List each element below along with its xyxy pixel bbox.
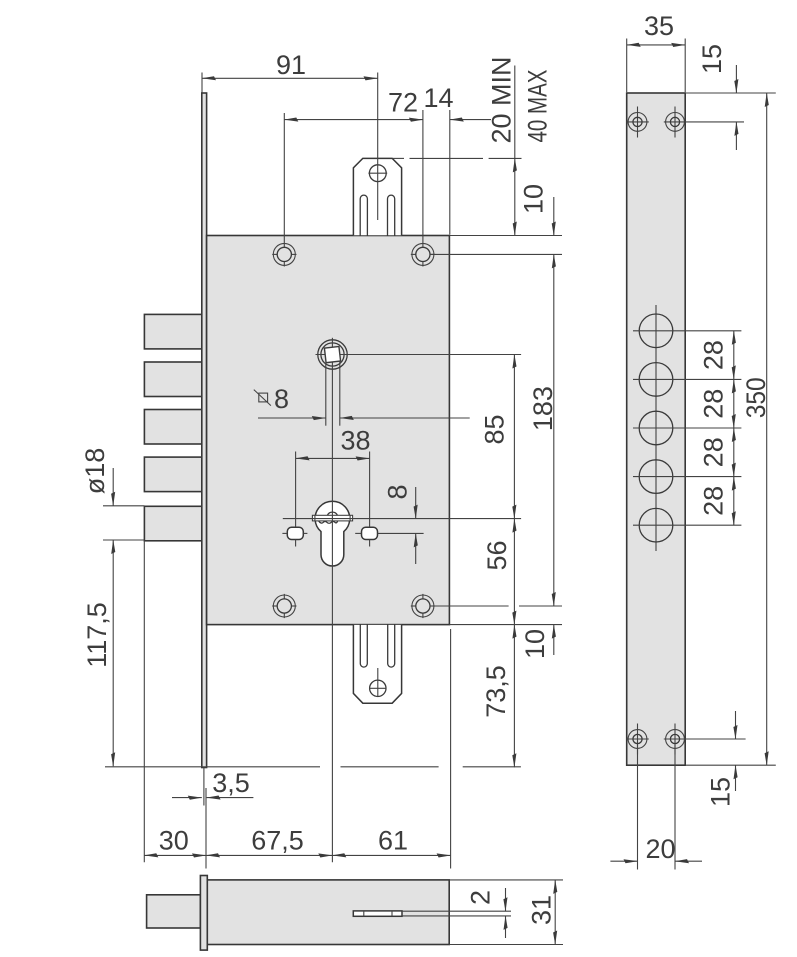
dim 38 line: [296, 457, 370, 459]
dim 3,5 right tail: [207, 797, 254, 799]
top tab hole crosshair: [368, 172, 387, 174]
svg-text:38: 38: [340, 426, 370, 456]
dim 8 cyl upper tail: [415, 487, 417, 519]
svg-text:20 MIN: 20 MIN: [487, 56, 517, 143]
svg-text:28: 28: [698, 340, 728, 370]
dim 10 bottom tail: [553, 625, 555, 655]
screw hole top-right inner: [416, 247, 430, 261]
dim 20 extension lines: [637, 745, 639, 870]
svg-text:35: 35: [644, 11, 674, 41]
dim square 8 line right: [340, 417, 470, 419]
square size extension line left: [325, 363, 327, 426]
svg-text:85: 85: [480, 414, 510, 444]
dim 14 tail: [450, 119, 491, 121]
svg-text:28: 28: [698, 389, 728, 419]
svg-text:10: 10: [520, 629, 550, 659]
bottom tab slot left: [360, 624, 367, 667]
dim 117,5 line: [112, 540, 114, 766]
dim 67,5 line: [206, 854, 332, 856]
SIDE VIEW: [610, 11, 775, 870]
bottom mounting tab: [353, 625, 401, 703]
key slot tick: [363, 911, 365, 916]
dim 31 line: [554, 880, 556, 945]
dim 72 line: [284, 119, 423, 121]
svg-text:20: 20: [645, 834, 675, 864]
side screw bottom-right: [666, 730, 685, 749]
BOTTOM VIEW: [147, 876, 563, 951]
square symbol diagonal: [254, 390, 271, 406]
svg-text:3,5: 3,5: [212, 768, 250, 798]
dim o18 bottom boundary: [103, 539, 144, 541]
svg-text:28: 28: [698, 437, 728, 467]
top tab centerline: [377, 73, 379, 221]
dim 35 right extension: [684, 39, 686, 93]
dim 38 right extension: [369, 452, 371, 528]
dim 56 line: [513, 519, 515, 625]
svg-text:2: 2: [466, 890, 496, 905]
bottom tab centerline: [377, 668, 379, 696]
svg-text:28: 28: [698, 486, 728, 516]
svg-text:183: 183: [528, 386, 558, 431]
pin circle 1: [639, 314, 673, 348]
bolt 1: [144, 314, 201, 349]
dim square 8 line left: [258, 417, 326, 419]
svg-text:117,5: 117,5: [82, 602, 112, 668]
svg-text:40 MAX: 40 MAX: [523, 70, 553, 143]
bottom tab hole crosshair: [369, 687, 386, 689]
bottom tab slot right: [388, 624, 395, 667]
dim 72 right extension: [422, 110, 424, 247]
body bottom extension right: [449, 624, 562, 626]
dim 91 line: [202, 77, 378, 79]
body top extension right: [449, 235, 562, 237]
dim 85 line: [513, 355, 515, 519]
dim 15 bottom lower tail: [735, 765, 737, 791]
dim 2 lower tail: [505, 916, 507, 938]
screw hole bottom-left outer: [273, 595, 295, 617]
cylinder horizontal centerline: [283, 518, 521, 520]
pin circle 4: [639, 460, 673, 494]
dim o18 top boundary: [103, 505, 144, 507]
bottom view top extension: [449, 879, 563, 881]
spindle follower outer circle: [318, 340, 347, 369]
bolt 2: [144, 362, 201, 397]
FRONT DIMENSIONS: [80, 50, 562, 869]
dim 15 bottom upper tail: [735, 711, 737, 739]
bottom view key slot: [353, 911, 402, 916]
side screw top-left: [628, 113, 647, 132]
bottom view lock body: [207, 880, 449, 945]
svg-text:14: 14: [423, 83, 453, 113]
side screw bottom-left crosshair: [637, 724, 639, 755]
screw hole bottom-left inner: [277, 599, 291, 613]
bolt 5: [144, 506, 201, 541]
dim 30 line: [144, 854, 206, 856]
spindle square hole: [324, 347, 340, 363]
spindle follower inner circle: [321, 343, 344, 366]
svg-text:56: 56: [482, 540, 512, 570]
side screw top-right: [666, 113, 685, 132]
dim 35 left extension: [626, 39, 628, 93]
pin circle 5: [639, 508, 673, 542]
screw hole top-right ticks: [411, 253, 416, 255]
dim 72 left extension: [283, 113, 285, 247]
svg-text:350: 350: [741, 377, 771, 418]
lip right extension line: [205, 788, 207, 869]
svg-text:91: 91: [276, 50, 306, 80]
cylinder hole (euro profile): [315, 501, 350, 566]
screw hole top-left ticks: [272, 253, 277, 255]
right oval ticks: [355, 532, 361, 534]
pin circle 3: [639, 411, 673, 445]
svg-text:61: 61: [378, 826, 408, 856]
dim 28 lines: [733, 331, 735, 380]
cam bar end ticks: [314, 515, 316, 521]
faceplate lip (front view): [202, 93, 207, 768]
spindle vertical centerline upper: [331, 338, 333, 370]
dim 10 top tail: [553, 197, 555, 236]
svg-text:73,5: 73,5: [481, 665, 511, 718]
dim 35 line: [627, 44, 686, 46]
dim 61 line: [332, 854, 450, 856]
dim 2 upper tail: [505, 888, 507, 911]
side screw bottom-right crosshair: [674, 724, 676, 755]
dim o18 tail: [112, 468, 114, 506]
left pin oval: [287, 527, 303, 539]
FRONT VIEW: [105, 73, 521, 863]
top screw line right: [430, 253, 562, 255]
dim 91 left extension: [201, 73, 203, 93]
svg-text:10: 10: [519, 184, 549, 214]
svg-text:31: 31: [527, 895, 557, 925]
dim 3,5 extension: [203, 768, 205, 806]
square symbol: [259, 393, 268, 402]
cylinder profile wave: [319, 521, 338, 523]
slot extension lines: [402, 910, 511, 912]
svg-text:30: 30: [159, 826, 189, 856]
screw hole top-left outer: [273, 243, 295, 265]
pin circle 2: [639, 363, 673, 397]
spindle horizontal centerline: [316, 354, 522, 356]
screw hole bottom-left ticks: [272, 605, 277, 607]
svg-text:8: 8: [383, 484, 413, 499]
svg-text:67,5: 67,5: [251, 826, 304, 856]
side screw top-left crosshair: [637, 107, 639, 138]
bolt 4: [144, 457, 201, 492]
dim 73,5 line: [513, 625, 515, 768]
dim 20 left tail: [610, 860, 637, 862]
bottom view bolt: [147, 895, 201, 928]
body right extension line: [450, 629, 452, 869]
bottom screw line right: [430, 605, 509, 607]
main vertical centerline: [331, 370, 333, 863]
screw hole top-right outer: [412, 243, 434, 265]
bottom tab screw hole: [370, 680, 386, 696]
left oval ticks: [282, 532, 287, 534]
right pin oval: [362, 527, 378, 539]
dim 20 right tail: [675, 860, 702, 862]
screw hole top-left inner: [277, 247, 291, 261]
screw hole bottom-right ticks: [411, 605, 416, 607]
screw hole bottom-right outer: [412, 595, 434, 617]
svg-text:15: 15: [697, 44, 727, 74]
dim 3,5 left tail: [172, 797, 202, 799]
dim 38 left extension: [295, 452, 297, 528]
dim 14 extension: [449, 110, 451, 235]
lock body: [207, 236, 450, 625]
side faceplate: [627, 93, 686, 765]
side circles centerline: [655, 305, 657, 551]
plate bottom extension right: [685, 764, 776, 766]
side screw top-right crosshair: [674, 107, 676, 138]
handle height reference dashes: [393, 157, 404, 159]
bolt tip extension line: [143, 541, 145, 862]
dim 8 cyl lower tail: [415, 533, 417, 564]
top tab screw hole: [369, 165, 386, 182]
cylinder cam bar: [312, 515, 352, 521]
side screw bottom-left: [628, 730, 647, 749]
bottom view faceplate lip: [200, 876, 207, 951]
top tab slot right: [388, 195, 395, 236]
top mounting tab: [353, 158, 401, 235]
bottom view bottom extension: [449, 944, 563, 946]
svg-text:15: 15: [706, 777, 736, 807]
dim 183 line: [553, 254, 555, 606]
plate top extension right: [685, 92, 776, 94]
dim 20min/40max upper line: [514, 66, 516, 159]
horizontal centerline dashes: [105, 766, 320, 768]
dim 15 top lower tail: [735, 122, 737, 150]
square size extension line right: [339, 362, 341, 426]
dim 15 top upper tail: [735, 65, 737, 93]
top tab slot left: [360, 195, 367, 236]
svg-text:ø18: ø18: [80, 448, 110, 495]
cylinder profile bump: [327, 512, 337, 515]
bolt 3: [144, 410, 201, 445]
dim 20min/40max arrows: [514, 158, 516, 235]
screw hole bottom-right inner: [416, 599, 430, 613]
svg-text:8: 8: [274, 384, 289, 414]
dim 350 line: [766, 93, 768, 765]
svg-text:72: 72: [388, 88, 418, 118]
